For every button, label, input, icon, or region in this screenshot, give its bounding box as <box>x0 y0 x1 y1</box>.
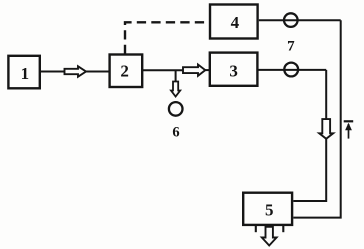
svg-text:4: 4 <box>231 13 240 32</box>
svg-text:5: 5 <box>265 200 274 219</box>
indicator circle lower (7) <box>284 63 298 77</box>
wire junction down <box>175 70 177 81</box>
wire corner down to flow arrow <box>325 70 327 119</box>
exhaust down arrow under box5 <box>262 227 277 246</box>
block 3 <box>210 53 258 86</box>
wire box1 to arrow <box>41 71 65 73</box>
indicator circle upper (7) <box>284 13 298 27</box>
stub leg right under box5 <box>282 226 284 233</box>
svg-text:2: 2 <box>120 61 129 80</box>
wire box3 through lower circle to right corner <box>257 69 326 71</box>
small down flow arrow to circle 6 <box>171 82 180 97</box>
svg-text:7: 7 <box>287 39 295 55</box>
wire box2 to junction and arrow <box>142 69 182 71</box>
block 5 <box>243 193 292 225</box>
wire arrow to box3 <box>205 69 209 71</box>
flow arrow between 2 and 3 <box>183 65 205 76</box>
wire arrow to box2 <box>86 71 109 73</box>
down flow arrow on vertical wire <box>319 119 333 139</box>
vent symbol beside right wire <box>344 121 354 138</box>
stub leg left under box5 <box>255 226 257 233</box>
block 4 <box>210 5 258 39</box>
wire right vertical down to box5 lower inlet <box>293 20 340 217</box>
block 1 <box>8 56 39 89</box>
svg-text:3: 3 <box>229 62 238 81</box>
svg-text:6: 6 <box>172 125 179 141</box>
dashed feedback wire box2 to box4 <box>125 22 210 54</box>
flow arrow between 1 and 2 <box>65 66 87 76</box>
sample point circle 6 <box>169 102 183 116</box>
svg-text:1: 1 <box>21 64 30 83</box>
block 2 <box>110 55 143 88</box>
wire arrow down to box5 upper inlet <box>293 139 326 201</box>
wire box4 through upper circle to right corner <box>259 19 341 21</box>
